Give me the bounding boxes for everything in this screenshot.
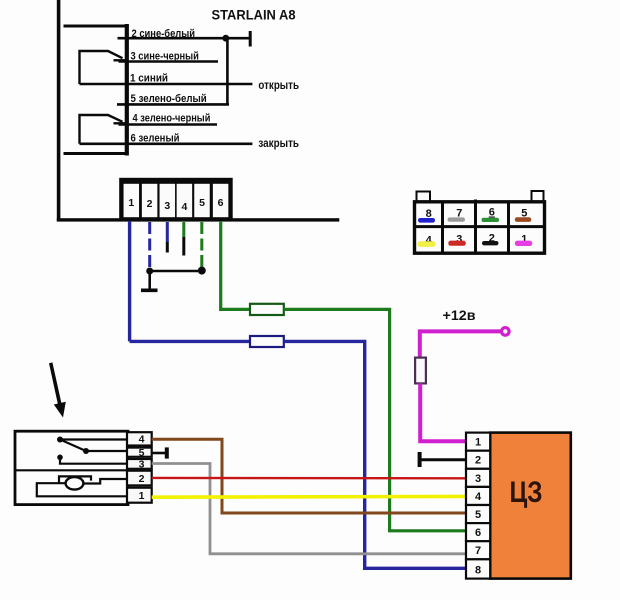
svg-text:8: 8 <box>475 564 481 576</box>
motor M1 right lead <box>83 479 127 484</box>
svg-text:3: 3 <box>475 473 481 485</box>
svg-text:закрыть: закрыть <box>258 136 299 150</box>
svg-text:ЦЗ: ЦЗ <box>510 476 543 509</box>
actuator switch arm <box>60 440 86 452</box>
wire blue to CZ <box>284 341 466 568</box>
pointer arrow <box>49 362 66 417</box>
wire green to CZ <box>284 309 466 530</box>
wire pin3 stub blue part <box>166 222 169 242</box>
wire magenta vertical lower <box>420 383 466 441</box>
wire 2 line <box>118 37 251 40</box>
connector X2 outer frame <box>415 202 545 253</box>
wire blue horizontal <box>130 340 251 343</box>
junction dot pin2 ground <box>146 268 153 275</box>
switch block top wire <box>64 25 129 28</box>
actuator block outer box <box>15 431 128 504</box>
connector X2 pin6 green mark <box>482 218 500 222</box>
actuator pin box 3 <box>127 459 152 469</box>
wire gray <box>152 464 466 554</box>
actuator switch pin4 wire <box>60 438 127 440</box>
svg-text:1: 1 <box>139 490 145 502</box>
svg-text:5: 5 <box>139 447 145 459</box>
connector X1 pin 5 box <box>194 184 210 217</box>
connector X2 pin8 blue mark <box>418 218 435 223</box>
actuator switch pin5 wire <box>86 450 127 452</box>
connector X2 pin3 red mark <box>448 241 466 246</box>
wire pin2 blue dashed <box>148 222 151 268</box>
svg-text:6: 6 <box>475 527 481 539</box>
wire pin6 green drop <box>221 221 251 309</box>
svg-text:3: 3 <box>164 200 170 212</box>
terminal bar at actuator pin5 <box>152 452 166 455</box>
wire magenta vertical upper <box>418 329 422 358</box>
svg-text:2: 2 <box>475 455 481 467</box>
actuator pin box 2 <box>127 471 152 486</box>
svg-text:4: 4 <box>139 434 145 446</box>
CZ pin box 6 <box>466 523 490 541</box>
wire pin3 stub black part <box>166 242 169 253</box>
switch block bottom wire <box>64 152 129 155</box>
svg-text:3: 3 <box>139 458 145 470</box>
ground stem <box>148 271 151 289</box>
black wire to CZ pin2 <box>420 458 466 461</box>
junction dot on wire 2 <box>222 35 229 42</box>
wire 3 line <box>119 60 219 63</box>
terminal bar near CZ pin2 <box>418 452 422 467</box>
CZ pin box 3 <box>466 469 490 487</box>
CZ pin box 8 <box>466 559 490 578</box>
motor M1 body <box>66 477 84 490</box>
alarm unit left edge <box>57 0 61 221</box>
svg-text:1 синий: 1 синий <box>130 72 168 84</box>
connector X2 pin5 brown mark <box>515 217 532 222</box>
svg-text:4 зелено-черный: 4 зелено-черный <box>133 113 211 125</box>
CZ unit body <box>490 433 571 579</box>
fuse F1 green <box>250 304 284 315</box>
CZ pin box 1 <box>466 433 490 451</box>
actuator pin3 wire <box>60 457 127 463</box>
wire yellow <box>152 495 466 499</box>
connector X1 pin 6 box <box>213 184 229 217</box>
svg-text:5: 5 <box>475 509 481 521</box>
svg-text:+12в: +12в <box>443 307 476 323</box>
connector X2 pin7 gray mark <box>448 217 466 221</box>
connector X1 pin numbers <box>128 197 223 213</box>
wire pin1 blue drop <box>128 221 131 341</box>
relay contact K1 <box>80 51 128 84</box>
fuse F3 magenta <box>415 358 426 384</box>
CZ pin box 4 <box>466 487 490 505</box>
connector X2 right tab <box>532 191 544 202</box>
actuator switch arm dot <box>83 448 89 454</box>
ground bar <box>141 288 158 292</box>
actuator open contact dot <box>57 455 63 461</box>
connector X2 pin numbers bottom row <box>426 233 528 247</box>
terminal bar on wire 2 <box>249 31 252 47</box>
svg-text:открыть: открыть <box>258 78 299 92</box>
connector X1 pin 4 box <box>177 184 193 217</box>
connector X1 outer frame <box>119 178 233 220</box>
wire brown <box>152 439 466 513</box>
wire pin5 green dashed <box>200 222 203 267</box>
connector X2 pin2 black mark <box>482 241 499 245</box>
svg-text:1: 1 <box>475 437 481 449</box>
actuator pin box 5 <box>127 448 152 457</box>
wire 1 line <box>80 83 253 86</box>
switch block bus bar <box>125 24 129 156</box>
wire 2 to wire 5 link <box>226 38 229 104</box>
CZ pin numbers <box>475 437 482 577</box>
svg-text:5: 5 <box>199 197 205 209</box>
CZ pin box 7 <box>466 541 490 559</box>
wire +12v magenta horizontal <box>420 329 502 333</box>
svg-text:6 зеленый: 6 зеленый <box>131 133 180 145</box>
connector X1 pin 2 box <box>142 184 158 217</box>
connector X2 grid lines <box>415 200 545 254</box>
wire pin4 stub black part <box>182 237 185 256</box>
svg-text:5 зелено-белый: 5 зелено-белый <box>131 93 207 105</box>
connector X2 pin1 magenta mark <box>515 241 533 246</box>
svg-text:6: 6 <box>218 197 224 209</box>
ground link wire <box>150 270 202 273</box>
actuator switch common contact <box>57 437 63 443</box>
alarm unit bottom edge <box>57 218 340 221</box>
wire red <box>152 477 466 480</box>
svg-text:6: 6 <box>489 207 495 219</box>
svg-text:4: 4 <box>475 491 482 503</box>
wire 5 line <box>117 103 229 106</box>
motor M1 left lead <box>37 483 127 496</box>
fuse F2 blue <box>250 336 284 347</box>
actuator pin box 4 <box>127 432 152 445</box>
+12v ring terminal <box>502 328 510 336</box>
CZ pin box 5 <box>466 505 490 523</box>
connector X2 pin numbers top row <box>426 207 528 221</box>
svg-text:3 сине-черный: 3 сине-черный <box>131 50 199 62</box>
junction dot pin5 ground <box>198 267 206 275</box>
relay contact K2 <box>80 115 128 144</box>
connector X2 left tab <box>417 192 431 202</box>
connector X2 pin4 yellow mark <box>418 241 436 247</box>
wire 4 line <box>119 123 218 126</box>
svg-text:STARLAIN A8: STARLAIN A8 <box>212 7 296 23</box>
actuator pin box 1 <box>127 488 152 503</box>
svg-text:1: 1 <box>128 197 134 209</box>
actuator block divider <box>15 469 128 471</box>
connector X1 pin 3 box <box>160 184 176 217</box>
connector X1 pin 1 box <box>124 184 140 217</box>
wire pin4 stub green part <box>182 222 185 237</box>
svg-text:2: 2 <box>147 198 153 210</box>
motor M1 brush bracket <box>59 476 91 482</box>
svg-text:4: 4 <box>181 201 187 213</box>
svg-text:2 сине-белый: 2 сине-белый <box>132 28 196 40</box>
CZ pin box 2 <box>466 451 490 469</box>
svg-text:7: 7 <box>475 545 481 557</box>
svg-text:2: 2 <box>139 473 145 485</box>
actuator pin numbers <box>139 434 145 503</box>
wire 6 line <box>80 143 253 146</box>
